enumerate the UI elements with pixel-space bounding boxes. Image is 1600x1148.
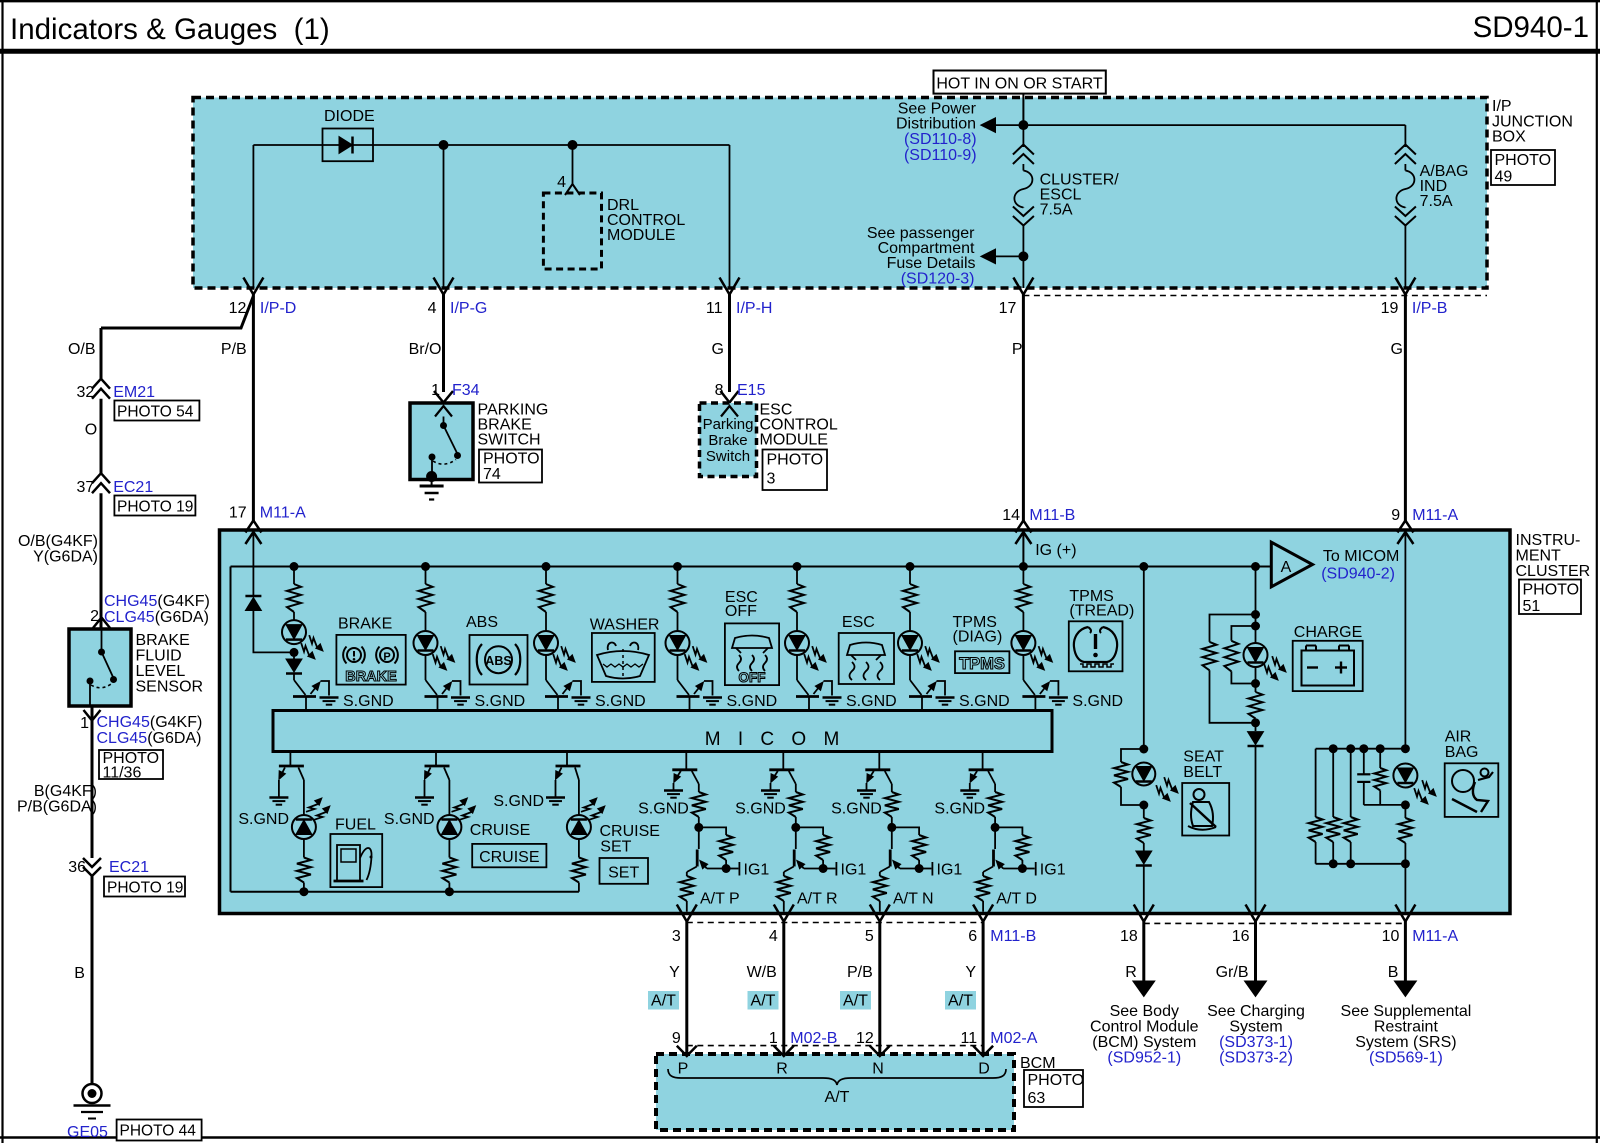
svg-text:D: D xyxy=(978,1061,990,1078)
transistor FUEL driver xyxy=(289,752,291,767)
svg-text:See Body: See Body xyxy=(1110,1003,1179,1020)
BCM pin entry arrow xyxy=(774,1046,794,1056)
svg-text:17: 17 xyxy=(999,300,1017,317)
wire G from I/P pin 19 to cluster pin 9 xyxy=(1404,295,1407,522)
node charge mid xyxy=(1255,667,1257,684)
diode seat belt xyxy=(1143,843,1145,851)
svg-text:ABS: ABS xyxy=(466,614,498,631)
svg-text:BRAKE: BRAKE xyxy=(338,616,392,633)
wire W/B to BCM pin 1 xyxy=(782,922,785,1055)
svg-text:Distribution: Distribution xyxy=(896,116,976,133)
photo box PHOTO 19 xyxy=(114,496,195,516)
wire O between EM21 and EC21 xyxy=(100,399,103,475)
svg-text:B: B xyxy=(74,965,85,982)
svg-text:SD940-1: SD940-1 xyxy=(1473,11,1589,44)
DRL control module box xyxy=(543,193,601,269)
svg-text:P/B: P/B xyxy=(221,341,247,358)
svg-text:M I C O M: M I C O M xyxy=(705,729,846,750)
dashed connector line M11-A xyxy=(1144,922,1406,924)
svg-text:M11-A: M11-A xyxy=(1412,507,1458,524)
svg-text:P/B(G6DA): P/B(G6DA) xyxy=(17,799,97,816)
page left border xyxy=(1,0,3,1143)
node BRAKE diode junction xyxy=(290,648,299,657)
brake fluid level sensor box xyxy=(69,629,131,706)
net IG1 (A/T R) xyxy=(823,868,835,870)
wire to ABS LED xyxy=(425,612,427,631)
svg-text:G: G xyxy=(712,341,724,358)
photo box PHOTO 49 xyxy=(1491,150,1555,185)
svg-text:8: 8 xyxy=(715,382,724,399)
BCM pin entry arrow xyxy=(870,1046,890,1056)
svg-text:49: 49 xyxy=(1495,169,1513,186)
svg-text:System: System xyxy=(1229,1019,1282,1036)
transistor CRUISE driver xyxy=(435,752,437,767)
resistor seat belt parallel xyxy=(1121,749,1144,762)
LED AIR BAG indicator xyxy=(1393,764,1417,788)
wire bottom return bus xyxy=(231,891,579,893)
wire Br/O from pin 4 to F34 xyxy=(442,295,445,393)
svg-text:MENT: MENT xyxy=(1516,548,1562,565)
cluster pin 14 M11-B xyxy=(1015,521,1031,533)
svg-text:INSTRU-: INSTRU- xyxy=(1516,532,1581,549)
node airbag rail junction xyxy=(1376,744,1385,753)
wire P/B to BCM pin 12 xyxy=(878,922,881,1055)
svg-text:SENSOR: SENSOR xyxy=(136,679,204,696)
svg-text:OFF: OFF xyxy=(725,603,757,620)
svg-text:To MICOM: To MICOM xyxy=(1323,548,1399,565)
svg-text:GE05: GE05 xyxy=(67,1124,108,1141)
svg-text:ESC: ESC xyxy=(842,614,875,631)
resistor airbag B xyxy=(1332,749,1334,817)
svg-text:I/P-G: I/P-G xyxy=(450,300,487,317)
resistor charge series xyxy=(1255,684,1257,693)
cluster pin 17 M11-A xyxy=(245,521,261,533)
connector 8 E15 xyxy=(721,391,739,403)
diode below BRAKE LED xyxy=(293,652,295,659)
svg-text:PHOTO 54: PHOTO 54 xyxy=(117,404,194,421)
net IG1 (A/T P) xyxy=(726,868,738,870)
transistor ESCOFF lamp driver xyxy=(678,680,690,695)
svg-text:M11-A: M11-A xyxy=(1412,928,1458,945)
svg-text:Parking: Parking xyxy=(703,416,754,433)
wire ABS column upper xyxy=(425,567,427,585)
wire G from pin 11 to E15 xyxy=(728,295,731,393)
wire O/B down to EM21 xyxy=(100,328,103,380)
svg-text:S.GND: S.GND xyxy=(934,801,985,818)
transistor TPMSTREAD lamp driver xyxy=(1023,680,1035,695)
node seat belt mid xyxy=(1139,801,1148,810)
photo box PHOTO 11/36 xyxy=(99,750,163,779)
node seat belt top xyxy=(1139,745,1148,754)
dashed connector line M11-B xyxy=(687,922,983,924)
node A/T P base node xyxy=(694,823,703,832)
svg-text:CHG45(G4KF): CHG45(G4KF) xyxy=(97,714,203,731)
wire collector to LED (CRUISESET) xyxy=(575,768,579,781)
svg-text:CRUISE: CRUISE xyxy=(479,849,539,866)
resistor A/T D collector xyxy=(988,771,995,784)
node airbag rail junction xyxy=(1329,744,1338,753)
LED SEAT BELT indicator xyxy=(1132,763,1155,786)
svg-text:4: 4 xyxy=(557,174,566,191)
svg-text:G: G xyxy=(1391,341,1403,358)
svg-text:PHOTO 44: PHOTO 44 xyxy=(120,1123,197,1140)
svg-text:P: P xyxy=(1012,341,1023,358)
transistor A/T R output xyxy=(795,827,797,849)
LED ESC indicator xyxy=(785,631,809,655)
resistor BRAKE lamp xyxy=(287,584,301,612)
svg-text:MODULE: MODULE xyxy=(607,227,675,244)
svg-text:M11-B: M11-B xyxy=(990,928,1036,945)
svg-text:Control Module: Control Module xyxy=(1090,1019,1199,1036)
icon FUEL pump xyxy=(330,834,382,887)
svg-text:S.GND: S.GND xyxy=(384,811,435,828)
svg-text:System (SRS): System (SRS) xyxy=(1355,1034,1456,1051)
svg-text:(SD373-1): (SD373-1) xyxy=(1219,1034,1293,1051)
svg-text:A/T N: A/T N xyxy=(893,891,934,908)
svg-text:PHOTO: PHOTO xyxy=(1495,152,1552,169)
parking brake switch box xyxy=(410,403,473,480)
node IG bus junction (BRAKE) xyxy=(290,562,299,571)
boxed indicator CRUISE xyxy=(472,844,546,867)
svg-text:P: P xyxy=(383,651,390,663)
node IG1 (A/T N) xyxy=(915,864,924,873)
LED CHARGE indicator xyxy=(1255,626,1257,643)
transistor A/T N driver (upper) xyxy=(878,752,880,770)
wire to ESCOFF LED xyxy=(677,612,679,631)
wire to WASHER LED xyxy=(545,612,547,631)
svg-text:12: 12 xyxy=(856,1030,874,1047)
fuse CLUSTER/ESCL 7.5A xyxy=(1013,145,1034,155)
page right border xyxy=(1596,0,1598,1143)
svg-text:Fuse Details: Fuse Details xyxy=(887,255,976,272)
resistor airbag C xyxy=(1350,749,1352,817)
svg-text:S.GND: S.GND xyxy=(595,693,646,710)
resistor airbag A xyxy=(1315,749,1317,817)
title separator line xyxy=(0,49,1600,54)
svg-text:A/T R: A/T R xyxy=(797,891,838,908)
wire airbag to pin 10 xyxy=(1404,864,1406,912)
svg-text:5: 5 xyxy=(865,928,874,945)
svg-text:B: B xyxy=(1388,964,1399,981)
resistor A/T N output xyxy=(879,872,881,876)
svg-text:P/B: P/B xyxy=(847,964,873,981)
node IG bus junction (WASHER) xyxy=(542,562,551,571)
svg-text:A/T: A/T xyxy=(948,993,973,1010)
wire airbag top rail xyxy=(1316,748,1406,750)
svg-text:37: 37 xyxy=(77,479,95,496)
connector 37 EC21 xyxy=(92,473,110,483)
wire Y to BCM pin 9 xyxy=(685,922,688,1055)
svg-text:DIODE: DIODE xyxy=(324,108,375,125)
node IG1 (A/T R) xyxy=(819,864,828,873)
wire B output arrow xyxy=(1404,922,1407,983)
svg-text:IG (+): IG (+) xyxy=(1035,542,1076,559)
svg-text:W/B: W/B xyxy=(747,964,777,981)
svg-text:18: 18 xyxy=(1120,928,1138,945)
LED WASHER indicator xyxy=(534,631,558,655)
svg-text:WASHER: WASHER xyxy=(590,617,660,634)
svg-text:11/36: 11/36 xyxy=(103,765,142,782)
svg-text:A/T: A/T xyxy=(825,1089,850,1106)
svg-text:PHOTO: PHOTO xyxy=(767,452,824,469)
svg-text:M11-A: M11-A xyxy=(260,505,306,522)
resistor charge parallel A xyxy=(1210,615,1256,642)
svg-text:63: 63 xyxy=(1028,1090,1046,1107)
svg-text:4: 4 xyxy=(769,928,778,945)
wire right feed corner down to A/BAG fuse xyxy=(1404,125,1406,147)
ground S.GND (TPMSDIAG) xyxy=(936,696,955,699)
svg-text:SEAT: SEAT xyxy=(1183,749,1224,766)
LED ESCOFF indicator xyxy=(666,631,690,655)
cluster pin 6 M11-B xyxy=(973,905,993,922)
svg-text:11: 11 xyxy=(960,1030,977,1047)
node: feed junction at x443 xyxy=(439,140,449,150)
transistor CRUISESET driver xyxy=(566,752,568,767)
LED ABS indicator xyxy=(414,631,438,655)
wire pin14 into bus xyxy=(1022,532,1024,567)
transistor A/T R driver (upper) xyxy=(782,752,784,770)
svg-text:SWITCH: SWITCH xyxy=(478,432,541,449)
svg-text:14: 14 xyxy=(1002,507,1020,524)
resistor FUEL xyxy=(303,839,305,858)
icon ESC xyxy=(839,633,894,684)
svg-text:FUEL: FUEL xyxy=(335,817,376,834)
svg-text:CHARGE: CHARGE xyxy=(1294,624,1362,641)
svg-text:EC21: EC21 xyxy=(113,479,153,496)
node bus junction (seat belt feed) xyxy=(1139,562,1148,571)
net IG1 (A/T N) xyxy=(919,868,931,870)
resistor A/T P collector xyxy=(692,771,699,784)
svg-text:CLG45(G6DA): CLG45(G6DA) xyxy=(97,730,202,747)
svg-text:S.GND: S.GND xyxy=(238,811,289,828)
svg-text:Y: Y xyxy=(669,964,680,981)
svg-text:BOX: BOX xyxy=(1492,129,1526,146)
node A/T R base node xyxy=(791,823,800,832)
svg-text:SET: SET xyxy=(608,865,639,882)
svg-text:P: P xyxy=(678,1061,689,1078)
ground below parking brake switch xyxy=(431,480,433,487)
svg-text:A/T: A/T xyxy=(751,993,776,1010)
boxed indicator SET xyxy=(600,858,649,884)
ground S.GND (CRUISESET) xyxy=(546,796,565,799)
svg-text:M02-A: M02-A xyxy=(990,1030,1037,1047)
node A/T D base node xyxy=(991,823,1000,832)
wire pin 9 feed down xyxy=(1404,532,1406,749)
brace A/T xyxy=(668,1069,1006,1085)
node passenger fuse junction xyxy=(1018,251,1028,261)
node IG1 (A/T P) xyxy=(722,864,731,873)
icon TPMS box xyxy=(955,651,1009,673)
ground S.GND (ESC) xyxy=(823,696,842,699)
resistor airbag series xyxy=(1404,805,1406,818)
wire down to brake fluid level sensor xyxy=(100,493,103,629)
svg-text:Indicators & Gauges (1): Indicators & Gauges (1) xyxy=(10,13,330,46)
resistor ESC lamp xyxy=(790,584,804,612)
svg-text:I/P-H: I/P-H xyxy=(736,300,772,317)
wire DRL branch down xyxy=(572,145,574,184)
svg-text:CLG45(G6DA): CLG45(G6DA) xyxy=(104,609,209,626)
svg-text:F34: F34 xyxy=(452,382,480,399)
node return bus junction (CRUISE) xyxy=(445,887,454,896)
wire TPMSTREAD column upper xyxy=(1022,567,1024,585)
svg-text:See Charging: See Charging xyxy=(1207,1003,1305,1020)
node return bus junction (FUEL) xyxy=(299,887,308,896)
svg-text:S.GND: S.GND xyxy=(475,693,526,710)
wire charge to pin 16 xyxy=(1255,746,1257,912)
wire to ESC LED xyxy=(796,612,798,631)
svg-text:IG1: IG1 xyxy=(841,862,867,879)
transistor BRAKE lamp driver xyxy=(294,680,306,695)
label A/T highlight xyxy=(748,991,779,1010)
wire ESC column upper xyxy=(796,567,798,585)
svg-text:A/T: A/T xyxy=(651,993,676,1010)
transistor ESC lamp driver xyxy=(797,680,809,695)
svg-text:32: 32 xyxy=(77,384,95,401)
ground S.GND (WASHER) xyxy=(572,696,591,699)
wire O/B branch: diagonal from pin 12 xyxy=(101,296,253,328)
icon AIR BAG xyxy=(1445,763,1499,817)
svg-text:FLUID: FLUID xyxy=(136,648,182,665)
svg-text:S.GND: S.GND xyxy=(959,693,1010,710)
svg-text:R: R xyxy=(1125,964,1137,981)
node airbag rail junction xyxy=(1359,744,1368,753)
svg-text:S.GND: S.GND xyxy=(343,693,394,710)
dashed connector line I/P pins 17-19 xyxy=(1023,295,1487,297)
svg-text:S.GND: S.GND xyxy=(638,801,689,818)
wire P/B from pin 12 down to cluster pin 17 xyxy=(252,295,255,522)
photo box PHOTO 63 xyxy=(1024,1070,1083,1107)
ground S.GND (A/T R) xyxy=(761,789,780,792)
svg-text:(DIAG): (DIAG) xyxy=(953,629,1003,646)
svg-text:PHOTO: PHOTO xyxy=(483,451,540,468)
svg-text:PHOTO 19: PHOTO 19 xyxy=(107,880,183,897)
wire node to CLUSTER fuse xyxy=(1022,125,1024,147)
ground S.GND (FUEL) xyxy=(269,796,288,799)
wire airbag bottom rail xyxy=(1316,863,1406,865)
resistor A/T N to IG1 xyxy=(892,827,919,835)
connector 32 EM21 xyxy=(92,379,110,389)
svg-text:Br/O: Br/O xyxy=(409,341,442,358)
svg-text:PHOTO: PHOTO xyxy=(1523,582,1580,599)
node IG bus junction (TPMSTREAD) xyxy=(1019,562,1028,571)
svg-text:11: 11 xyxy=(706,300,723,317)
transistor A/T D driver (upper) xyxy=(982,752,984,770)
resistor ABS lamp xyxy=(419,584,433,612)
svg-text:M02-B: M02-B xyxy=(790,1030,837,1047)
svg-text:OFF: OFF xyxy=(739,670,766,685)
arrow to power distribution xyxy=(996,124,1024,126)
resistor TPMSTREAD lamp xyxy=(1016,584,1030,612)
ESC control module box (Parking Brake Switch) xyxy=(700,403,757,477)
label A/T highlight xyxy=(840,991,871,1010)
node IG1 (A/T D) xyxy=(1018,864,1027,873)
svg-text:BRAKE: BRAKE xyxy=(345,669,397,685)
wire P from I/P pin 17 to cluster pin 14 xyxy=(1022,295,1025,522)
switch inside brake fluid level sensor xyxy=(101,629,103,650)
node airbag mid xyxy=(1401,800,1410,809)
ground S.GND (A/T N) xyxy=(857,789,876,792)
svg-text:S.GND: S.GND xyxy=(1072,693,1123,710)
svg-text:SET: SET xyxy=(600,839,631,856)
ground GE05 xyxy=(83,1084,102,1103)
node charge lower xyxy=(1251,718,1260,727)
wire seat belt feed down xyxy=(1143,567,1145,750)
node IG bus junction (ESCOFF) xyxy=(673,562,682,571)
svg-text:I/P: I/P xyxy=(1492,98,1512,115)
svg-text:A/T: A/T xyxy=(843,993,868,1010)
svg-text:E15: E15 xyxy=(737,382,766,399)
svg-text:O/B(G4KF): O/B(G4KF) xyxy=(18,533,98,550)
instrument cluster box xyxy=(220,530,1511,914)
LED CRUISESET indicator xyxy=(567,815,591,839)
svg-text:CLUSTER: CLUSTER xyxy=(1516,563,1591,580)
label A/T highlight xyxy=(648,991,679,1010)
svg-text:MODULE: MODULE xyxy=(760,432,828,449)
transistor ABS lamp driver xyxy=(426,680,438,695)
svg-text:CHG45(G4KF): CHG45(G4KF) xyxy=(104,593,210,610)
node bus junction (charge feed) xyxy=(1251,562,1260,571)
connector 36 EC21 xyxy=(83,858,101,867)
arrow to passenger fuse details xyxy=(996,255,1024,257)
svg-text:BRAKE: BRAKE xyxy=(136,632,190,649)
svg-text:O: O xyxy=(85,422,97,439)
svg-text:4: 4 xyxy=(428,300,437,317)
transistor TPMSDIAG lamp driver xyxy=(910,680,922,695)
capacitor airbag xyxy=(1363,749,1365,775)
wire to TPMSDIAG LED xyxy=(909,612,911,631)
svg-text:(SD569-1): (SD569-1) xyxy=(1369,1050,1443,1067)
resistor A/T D to IG1 xyxy=(995,827,1022,835)
wire from HOT box down xyxy=(1022,94,1024,126)
svg-text:CRUISE: CRUISE xyxy=(600,823,660,840)
svg-text:3: 3 xyxy=(767,471,776,488)
label HOT IN ON OR START xyxy=(934,71,1106,94)
svg-text:Y(G6DA): Y(G6DA) xyxy=(33,549,98,566)
svg-text:10: 10 xyxy=(1382,928,1400,945)
resistor A/T D output xyxy=(982,872,984,876)
BCM pin entry arrow xyxy=(677,1046,697,1056)
svg-text:O/B: O/B xyxy=(68,341,96,358)
wire B down to GE05 ground xyxy=(91,876,94,1084)
svg-text:CRUISE: CRUISE xyxy=(470,822,530,839)
svg-text:See Supplemental: See Supplemental xyxy=(1341,1003,1472,1020)
resistor airbag D xyxy=(1379,749,1381,768)
page bottom border xyxy=(0,1136,1600,1139)
svg-text:(TREAD): (TREAD) xyxy=(1069,603,1134,620)
icon WASHER xyxy=(592,633,655,682)
ground S.GND (A/T P) xyxy=(664,789,683,792)
wire collector to LED (CRUISE) xyxy=(444,768,449,781)
cluster pin 3 M11-B xyxy=(677,905,697,922)
photo box PHOTO 74 xyxy=(479,450,542,483)
photo box PHOTO 44 xyxy=(117,1120,202,1141)
net IG1 (A/T D) xyxy=(1022,868,1034,870)
node charge bracket top A xyxy=(1251,610,1260,619)
cluster pin 9 M11-A xyxy=(1397,521,1413,533)
resistor A/T R to IG1 xyxy=(796,827,823,835)
svg-text:1: 1 xyxy=(80,715,89,732)
svg-text:Y: Y xyxy=(965,964,976,981)
svg-text:EC21: EC21 xyxy=(109,859,149,876)
pin 12 I/P-D of I/P junction box xyxy=(243,278,263,295)
LED CRUISE indicator xyxy=(437,815,461,839)
ground S.GND (BRAKE) xyxy=(320,696,339,699)
svg-text:PHOTO 19: PHOTO 19 xyxy=(117,499,193,516)
svg-text:EM21: EM21 xyxy=(113,384,155,401)
node power distribution junction xyxy=(1018,120,1028,130)
svg-text:A/T D: A/T D xyxy=(996,891,1037,908)
svg-text:BELT: BELT xyxy=(1183,764,1222,781)
